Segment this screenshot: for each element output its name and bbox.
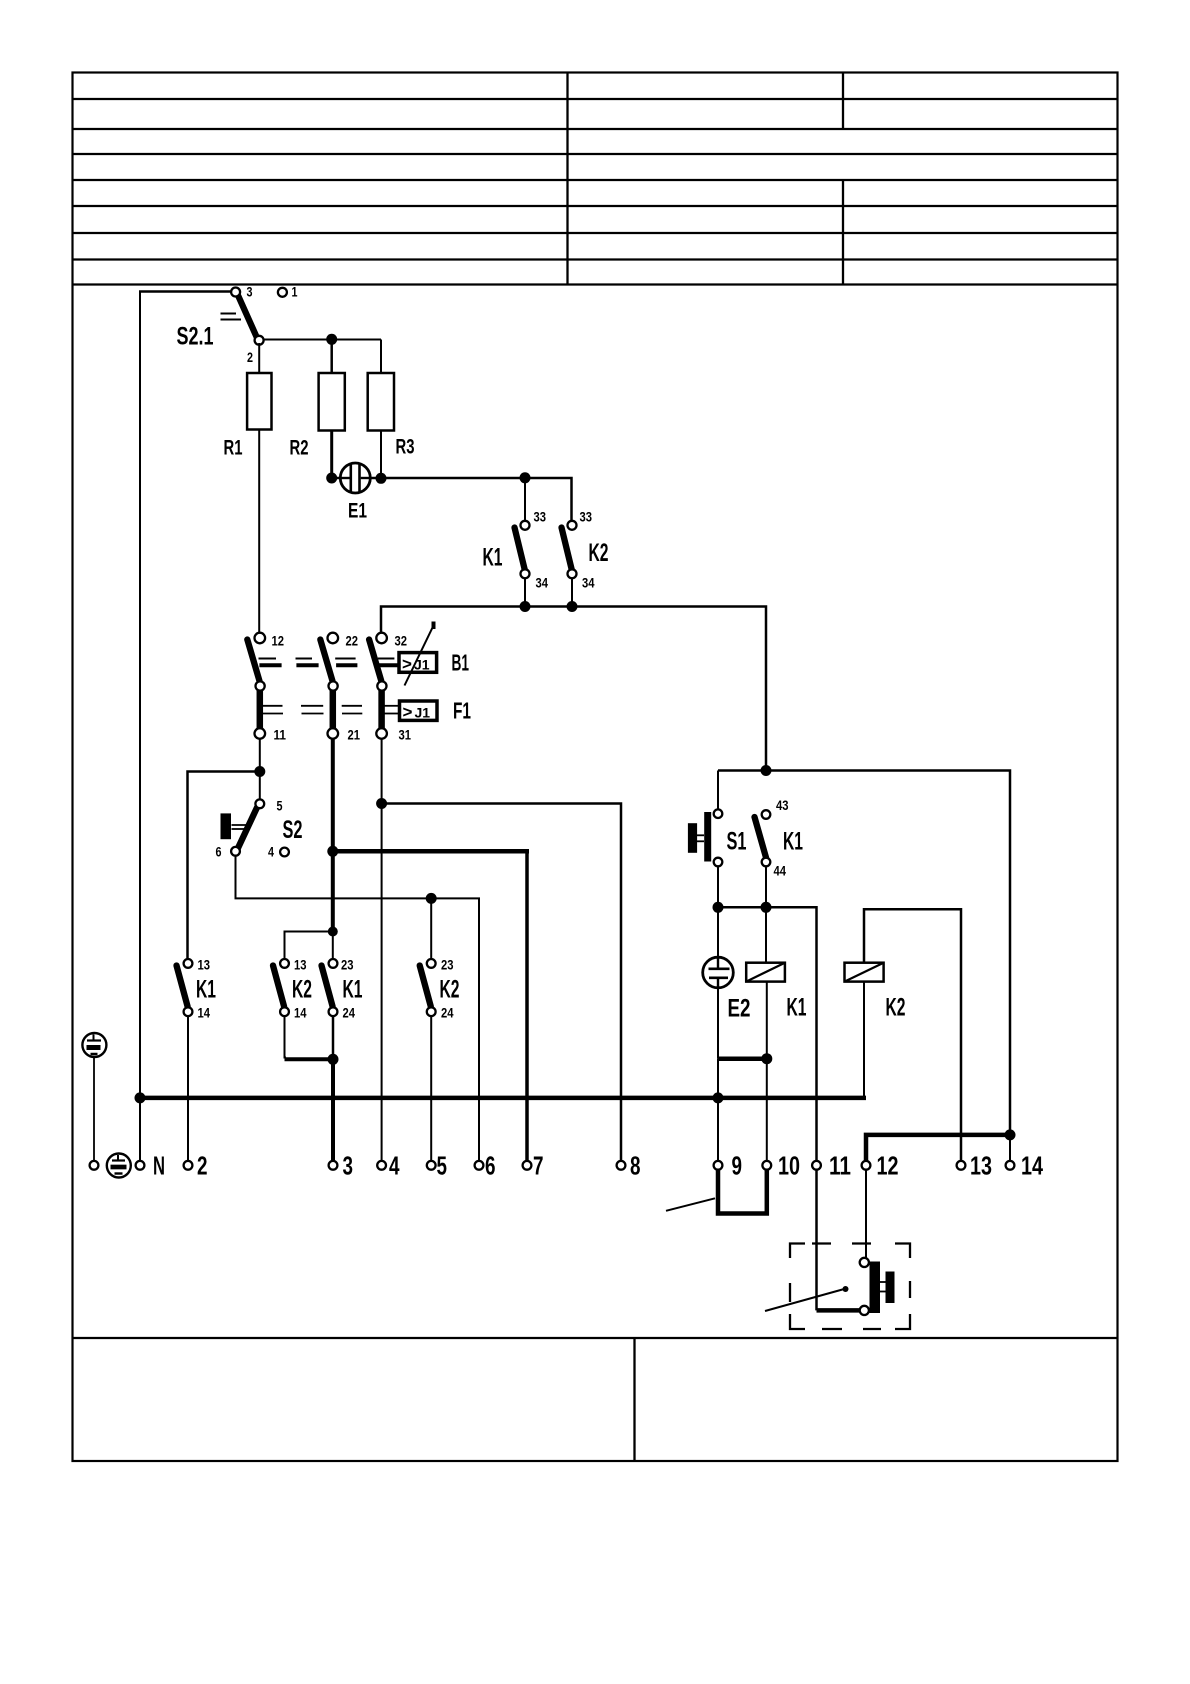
wire K2 coil bottom to bus (863, 982, 865, 1098)
wire terminal 9 run (717, 1059, 719, 1165)
wire S1 bottom lead (717, 866, 719, 907)
svg-text:34: 34 (582, 575, 595, 591)
svg-text:23: 23 (441, 957, 454, 973)
wire K2aux-14 jog to terminal 3 run (285, 1016, 287, 1058)
resistor R3 (368, 373, 394, 431)
junction above S2 (254, 766, 265, 777)
svg-text:11: 11 (274, 727, 287, 743)
contact K2 aux 13/14 (273, 959, 289, 1016)
wire PE drop (93, 1057, 95, 1165)
wire R3 top lead (380, 340, 382, 374)
svg-text:4: 4 (268, 844, 274, 860)
resistor R2 (319, 373, 345, 431)
junction 766/770 (761, 765, 772, 776)
wire branch row 803 to terminal 8 (382, 804, 621, 1166)
junction left of E1 (326, 473, 337, 484)
svg-text:4: 4 (389, 1151, 400, 1181)
terminal 4 (377, 1161, 386, 1170)
terminal 14 (1006, 1161, 1015, 1170)
terminal 3 (329, 1161, 338, 1170)
wire thick to terminal 3 (331, 1059, 335, 1165)
wire K1-34 drop (524, 578, 526, 607)
wire to K1 aux 23 (332, 932, 334, 964)
svg-text:1: 1 (292, 284, 298, 300)
svg-text:E1: E1 (348, 500, 367, 523)
svg-text:K1: K1 (787, 994, 807, 1022)
thermal switch callout line (765, 1286, 849, 1311)
svg-text:24: 24 (343, 1005, 356, 1021)
wire contact 31 down to terminal 4 (381, 739, 383, 1166)
wire jog thick (285, 1057, 334, 1061)
svg-text:2: 2 (247, 349, 253, 365)
svg-text:J1: J1 (415, 705, 431, 721)
PE earth symbol lower (107, 1154, 131, 1178)
coupling dashes upper thick trip bar (259, 663, 398, 667)
contact K1 aux 23/24 (322, 959, 338, 1016)
svg-text:10: 10 (778, 1151, 800, 1181)
wire jumper terminals 9-10 (718, 1170, 767, 1214)
svg-text:13: 13 (294, 957, 307, 973)
svg-text:24: 24 (441, 1005, 454, 1021)
svg-text:12: 12 (877, 1151, 899, 1181)
svg-text:K1: K1 (343, 976, 363, 1004)
terminal 6 (475, 1161, 484, 1170)
wire from S2.1 pin2 to R2/R3 branch (263, 339, 381, 341)
svg-text:31: 31 (399, 727, 412, 743)
contact main pole 22/21 (320, 633, 338, 739)
svg-text:23: 23 (341, 957, 354, 973)
release F1 (400, 701, 438, 722)
svg-text:>: > (403, 703, 413, 722)
svg-text:21: 21 (348, 727, 361, 743)
terminal 5 (427, 1161, 436, 1170)
svg-text:11: 11 (829, 1151, 851, 1181)
svg-text:3: 3 (247, 284, 253, 300)
svg-text:9: 9 (732, 1151, 743, 1181)
svg-text:34: 34 (536, 575, 549, 591)
wire L1 feed top horizontal (139, 290, 232, 293)
terminal 7 (523, 1161, 532, 1170)
junction 1058 (761, 1053, 772, 1064)
svg-text:6: 6 (216, 844, 222, 860)
lamp E1 (340, 463, 370, 493)
PE earth symbol upper (82, 1033, 106, 1057)
wire K1-33 drop (524, 478, 526, 521)
wire E2 to K1 coil bottom thick (718, 1056, 767, 1061)
wire K1 coil bottom to terminal 10 (766, 982, 768, 1165)
terminal 13 (957, 1161, 966, 1170)
junction K2-34 (567, 601, 578, 612)
svg-text:22: 22 (346, 633, 359, 649)
coupling dashes F1 row lower (263, 713, 362, 715)
junction K1 branch (520, 472, 531, 483)
svg-text:K2: K2 (440, 976, 460, 1004)
junction 1059 (328, 1054, 339, 1065)
wire terminal 12 link thick (866, 1135, 1010, 1165)
junction bus left (135, 1092, 146, 1103)
wire E1 row horizontal to K2 corner (332, 478, 572, 521)
wire K2 coil branch (864, 909, 961, 1165)
svg-text:K2: K2 (589, 539, 609, 567)
svg-text:44: 44 (774, 863, 787, 879)
svg-text:7: 7 (533, 1151, 544, 1181)
junction bus terminal 9 (713, 1092, 724, 1103)
jumper callout line (666, 1198, 715, 1211)
wire thermal switch bottom thick (817, 1308, 861, 1313)
svg-text:F1: F1 (453, 698, 471, 724)
contact main pole 12/11 (247, 633, 265, 739)
junction at R2 branch (326, 334, 337, 345)
svg-text:6: 6 (485, 1151, 496, 1181)
release F1 leads (384, 706, 400, 714)
wire K2aux-24 to terminal 5 (430, 1016, 432, 1165)
relay coil K2 (845, 963, 884, 982)
svg-text:33: 33 (580, 509, 593, 525)
wire K2-34 drop (571, 578, 573, 607)
contact K1 aux 13/14 (177, 959, 193, 1016)
svg-text:R1: R1 (224, 437, 243, 460)
terminal N (136, 1161, 145, 1170)
wire row 770 right side (718, 771, 1010, 1135)
junction S2 output (327, 846, 338, 857)
junction 1134 (1005, 1129, 1016, 1140)
wire branch to K2 aux 13 (285, 932, 333, 964)
wire to terminal 14 (1009, 1135, 1011, 1165)
switch S2.1 (221, 288, 287, 345)
terminal 12 (862, 1161, 871, 1170)
coupling dashes upper thin (259, 658, 395, 660)
contact K1 43/44 (755, 810, 771, 866)
svg-text:S2.1: S2.1 (177, 323, 214, 351)
wire S1 top lead (717, 771, 719, 811)
junction K1 coil top (761, 902, 772, 913)
junction K2-23 branch (426, 893, 437, 904)
wire row 606 horizontal (381, 607, 766, 771)
contact K1 33/34 (515, 521, 530, 579)
svg-text:K1: K1 (196, 976, 216, 1004)
svg-text:R2: R2 (290, 437, 309, 460)
wire E2 bottom (717, 987, 719, 1059)
svg-text:3: 3 (343, 1151, 354, 1181)
overload release B1 (399, 622, 437, 686)
wire thick to terminal 7 (333, 849, 529, 854)
wire E2 top lead (717, 907, 719, 958)
svg-text:14: 14 (198, 1005, 211, 1021)
pushbutton S1 (688, 809, 722, 866)
svg-text:8: 8 (630, 1151, 641, 1181)
svg-text:>: > (402, 655, 412, 674)
thermal cutout switch (860, 1258, 895, 1315)
terminal 8 (617, 1161, 626, 1170)
terminal 10 (762, 1161, 771, 1170)
wire contact 11 down to S2 node (259, 739, 261, 805)
svg-text:13: 13 (970, 1151, 992, 1181)
wire R1 top lead (258, 343, 260, 373)
wire R2 top lead (330, 340, 333, 374)
wire K1 coil top lead (765, 907, 767, 962)
wire neutral vertical run to bus (139, 291, 141, 1166)
contact main pole 32/31 (369, 633, 387, 739)
resistor R1 (247, 373, 271, 430)
terminal 11 (812, 1161, 821, 1170)
terminal PE (90, 1161, 99, 1170)
wire R2 bottom to E1 node (330, 431, 333, 479)
svg-text:R3: R3 (396, 436, 415, 459)
wire R3 bottom to E1 node (380, 431, 382, 479)
terminal 9 (714, 1161, 723, 1170)
wire K1aux-14 to terminal 2 (187, 1016, 189, 1165)
wire branch to K1 aux 13 (188, 772, 260, 964)
wire K1-44 lead (765, 866, 767, 907)
svg-text:14: 14 (294, 1005, 307, 1021)
junction 931 (328, 927, 338, 937)
junction row 803 (376, 798, 387, 809)
terminal 2 (184, 1161, 193, 1170)
lamp E2 (703, 957, 734, 988)
svg-text:14: 14 (1021, 1151, 1043, 1181)
wire R1 bottom to contact 12 (258, 430, 260, 634)
svg-text:13: 13 (198, 957, 211, 973)
svg-text:S2: S2 (283, 816, 303, 844)
svg-text:K2: K2 (886, 994, 906, 1022)
svg-text:43: 43 (776, 797, 789, 813)
wire K1aux-24 down (332, 1016, 335, 1059)
bus N thick horizontal (140, 1096, 866, 1101)
svg-text:2: 2 (197, 1151, 208, 1181)
relay coil K1 (746, 963, 785, 982)
junction K1-34 (520, 601, 531, 612)
svg-text:S1: S1 (727, 828, 747, 856)
junction right of E1 (376, 473, 387, 484)
dashed enclosure motor thermal switch (790, 1244, 910, 1330)
coupling dashes F1 row upper (263, 705, 362, 707)
wire terminal 12 to thermal switch (865, 1170, 867, 1259)
svg-text:5: 5 (437, 1151, 448, 1181)
junction S1 bottom (713, 902, 724, 913)
svg-text:5: 5 (277, 798, 283, 814)
wire row 907 to right drop (718, 907, 817, 1310)
svg-text:K1: K1 (783, 828, 803, 856)
svg-text:N: N (153, 1151, 165, 1181)
svg-text:K2: K2 (292, 976, 312, 1004)
svg-text:K1: K1 (483, 544, 503, 572)
svg-text:12: 12 (272, 633, 285, 649)
wire S2-6 down and across (236, 856, 480, 1165)
svg-text:32: 32 (395, 633, 408, 649)
svg-text:E2: E2 (728, 995, 751, 1023)
pushbutton S2 (221, 799, 289, 856)
wire K2-23 drop (430, 898, 432, 963)
contact K2 33/34 (562, 521, 577, 579)
svg-text:33: 33 (534, 509, 547, 525)
svg-text:B1: B1 (452, 650, 470, 676)
wire contact 21 down (331, 739, 335, 932)
contact K2 aux 23/24 (420, 959, 436, 1016)
